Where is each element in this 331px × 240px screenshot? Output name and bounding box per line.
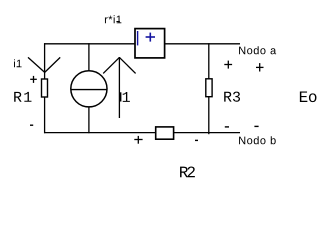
label R1 bbox=[14, 92, 31, 102]
minus mark at R2 right bbox=[195, 139, 198, 141]
plus mark near Nodo a (right) bbox=[256, 63, 264, 71]
current source I1 circle bbox=[71, 71, 107, 107]
plus mark at R2 left bbox=[134, 136, 142, 144]
minus mark at R1 bottom bbox=[30, 124, 33, 126]
wire middle stub top bbox=[88, 43, 90, 71]
label R2 bbox=[180, 167, 195, 178]
resistor R1 bbox=[42, 79, 48, 97]
wire bottom right segment to Nodo b tick bbox=[173, 132, 240, 134]
node label Nodo b bbox=[239, 136, 276, 144]
wire left upper (i1 arrow shaft) bbox=[44, 43, 46, 79]
minus mark above Nodo b (right) bbox=[254, 125, 258, 127]
output label Eo bbox=[300, 91, 317, 102]
label R3 bbox=[224, 92, 240, 102]
node label Nodo a bbox=[239, 46, 276, 54]
label i1 of source: i-stem overlapping shaft bbox=[120, 92, 122, 101]
label r*i1 bbox=[105, 15, 121, 23]
wire top right segment to Nodo a tick bbox=[164, 43, 240, 45]
wire right upper bbox=[208, 43, 210, 79]
current source direction arrow (up) bbox=[103, 57, 135, 118]
plus mark at R1 top bbox=[30, 76, 37, 83]
label i1 controlling current bbox=[14, 59, 22, 67]
arrow i1 current direction (down) on left wire bbox=[28, 57, 60, 72]
plus mark (blue) inside box bbox=[146, 33, 155, 42]
controlled voltage source box (r*i1) bbox=[135, 29, 165, 58]
wire top left segment bbox=[44, 43, 136, 45]
label i1 of source: digit 1 bbox=[123, 92, 130, 102]
wire right lower bbox=[208, 96, 210, 134]
selection bar (blue) inside box bbox=[137, 31, 139, 45]
minus mark above Nodo b (left) bbox=[225, 126, 229, 128]
resistor R2 bbox=[156, 127, 174, 139]
wire bottom left segment bbox=[44, 132, 156, 134]
resistor R3 bbox=[206, 79, 212, 97]
wire left lower bbox=[44, 97, 46, 134]
wire middle stub bottom bbox=[88, 107, 90, 133]
plus mark near Nodo a (left) bbox=[224, 61, 232, 69]
current source chord bbox=[71, 89, 107, 91]
